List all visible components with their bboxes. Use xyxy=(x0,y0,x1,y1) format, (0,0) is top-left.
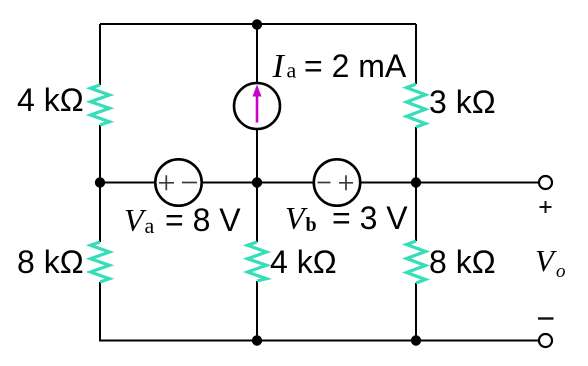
resistor 4k bottom-center zigzag xyxy=(248,242,267,281)
voltage source Vb circle xyxy=(314,159,360,205)
wire middle horizontal center segment xyxy=(201,182,315,184)
wire left vertical lower xyxy=(99,282,101,342)
svg-text:8 kΩ: 8 kΩ xyxy=(17,244,84,280)
wire left vertical upper xyxy=(99,24,101,85)
svg-text:3 kΩ: 3 kΩ xyxy=(429,84,496,120)
Ia arrow stem xyxy=(256,93,259,123)
wire top horizontal xyxy=(100,23,416,25)
wire left vertical mid xyxy=(99,125,101,242)
output minus sign xyxy=(538,317,554,319)
wire right vertical upper xyxy=(415,24,417,84)
resistor 4k top-left zigzag xyxy=(91,85,110,125)
node middle right xyxy=(411,177,421,187)
resistor 3k top-right zigzag xyxy=(407,84,426,127)
wire bottom horizontal xyxy=(100,340,539,342)
node bottom right xyxy=(411,335,421,345)
svg-text:o: o xyxy=(556,261,566,282)
wire middle horizontal right segment xyxy=(359,182,539,184)
resistor 8k bottom-left zigzag xyxy=(91,242,110,282)
terminal bottom open circle xyxy=(539,334,552,347)
svg-text:= 8 V: = 8 V xyxy=(165,202,241,238)
node top center xyxy=(252,19,262,29)
svg-text:a: a xyxy=(145,213,155,238)
svg-text:4 kΩ: 4 kΩ xyxy=(270,244,337,280)
svg-text:I: I xyxy=(272,48,286,85)
wire right vertical mid xyxy=(415,127,417,241)
svg-text:V: V xyxy=(535,243,557,278)
Vb plus sign xyxy=(339,175,353,190)
voltage source Va circle xyxy=(155,159,201,205)
node bottom center xyxy=(252,335,262,345)
Ia arrowhead xyxy=(253,85,262,97)
svg-text:= 2 mA: = 2 mA xyxy=(304,48,407,84)
Va plus sign xyxy=(159,175,174,190)
output plus sign xyxy=(540,201,552,213)
node middle left xyxy=(95,177,105,187)
resistor 8k bottom-right zigzag xyxy=(407,241,426,283)
wire right vertical lower xyxy=(415,283,417,341)
svg-text:a: a xyxy=(287,58,297,83)
wire middle horizontal left segment xyxy=(100,182,156,184)
wire center vertical mid xyxy=(256,128,258,242)
wire center vertical upper xyxy=(256,24,258,84)
svg-text:4 kΩ: 4 kΩ xyxy=(17,82,84,118)
current source Ia circle xyxy=(234,83,280,129)
svg-text:8 kΩ: 8 kΩ xyxy=(429,244,496,280)
node middle center xyxy=(252,177,262,187)
wire center vertical lower xyxy=(256,281,258,341)
Vb minus sign xyxy=(318,182,331,184)
svg-text:= 3 V: = 3 V xyxy=(332,200,408,236)
svg-text:b: b xyxy=(306,214,317,236)
terminal top open circle xyxy=(539,176,552,189)
Va minus sign xyxy=(182,182,197,184)
